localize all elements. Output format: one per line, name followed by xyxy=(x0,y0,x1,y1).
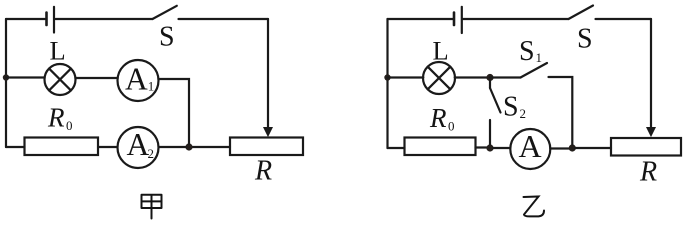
wire left vertical xyxy=(5,19,7,147)
wire node to rheostat xyxy=(575,147,611,149)
node junction (left) xyxy=(3,74,9,80)
label yi (Chinese character) xyxy=(524,197,545,217)
wire switch to right corner xyxy=(596,18,652,20)
svg-text:1: 1 xyxy=(536,50,543,65)
svg-text:R: R xyxy=(429,103,447,133)
wire node to lamp xyxy=(6,76,45,78)
label jia (Chinese character) xyxy=(142,195,162,219)
wire lamp to A1 xyxy=(76,77,118,79)
wire R0 to left vertical xyxy=(6,146,25,148)
resistor R0 xyxy=(25,103,99,156)
wire battery to switch xyxy=(463,18,569,20)
ammeter A2 xyxy=(118,127,159,168)
svg-text:R: R xyxy=(47,103,65,133)
lamp L xyxy=(45,36,76,96)
wire node to lamp xyxy=(388,76,424,78)
node junction (left vertical) xyxy=(384,74,390,80)
wire lamp to node xyxy=(455,76,490,78)
ammeter A xyxy=(510,128,550,169)
arrowhead wiper xyxy=(647,128,655,137)
switch S xyxy=(569,6,594,55)
wire S1 contact down to bottom node xyxy=(549,77,573,145)
arrowhead wiper xyxy=(264,128,272,137)
ammeter A1 xyxy=(118,60,159,101)
svg-text:2: 2 xyxy=(148,146,155,161)
svg-text:A: A xyxy=(519,128,542,164)
wire switch to right corner xyxy=(179,18,269,20)
svg-text:S: S xyxy=(503,92,519,123)
wire top-left to battery xyxy=(6,18,45,20)
switch S2 xyxy=(490,81,526,145)
node junction (bottom) xyxy=(185,143,192,150)
rheostat R xyxy=(611,138,681,188)
wire left vertical xyxy=(386,19,388,148)
svg-text:S: S xyxy=(159,22,175,53)
wire battery to switch xyxy=(56,18,153,20)
switch S xyxy=(153,6,177,53)
svg-text:R: R xyxy=(639,157,657,188)
svg-text:S: S xyxy=(519,36,535,67)
wire node to A2 xyxy=(159,146,186,148)
lamp L xyxy=(423,36,455,95)
wire bottom left to R0 xyxy=(388,147,405,149)
svg-text:A: A xyxy=(125,62,148,97)
rheostat R xyxy=(230,138,303,187)
wire R0 to node xyxy=(476,146,491,148)
wire top-left to battery xyxy=(388,18,454,20)
battery xyxy=(47,7,55,33)
wire node to ammeter xyxy=(493,147,510,149)
wire A1 to bottom node xyxy=(159,79,190,144)
wire A2 to R0 xyxy=(98,146,118,148)
wire ammeter to node xyxy=(550,147,572,149)
svg-text:S: S xyxy=(577,24,593,55)
node junction (bottom right) xyxy=(569,144,576,151)
wire right vertical (wiper lead) xyxy=(267,19,269,128)
svg-text:1: 1 xyxy=(148,79,155,94)
resistor R0 xyxy=(405,103,476,155)
node junction (bottom left) xyxy=(486,144,493,151)
svg-text:L: L xyxy=(433,36,449,66)
wire rheostat to node xyxy=(189,146,230,148)
svg-text:A: A xyxy=(127,127,150,162)
svg-text:2: 2 xyxy=(520,106,527,121)
svg-text:R: R xyxy=(254,156,272,187)
switch S1 xyxy=(490,36,547,78)
battery xyxy=(454,7,462,33)
svg-text:0: 0 xyxy=(448,119,455,134)
wire right vertical (wiper lead) xyxy=(650,19,652,128)
svg-text:0: 0 xyxy=(66,118,73,133)
node junction (branch split) xyxy=(486,74,493,81)
svg-text:L: L xyxy=(50,36,66,66)
